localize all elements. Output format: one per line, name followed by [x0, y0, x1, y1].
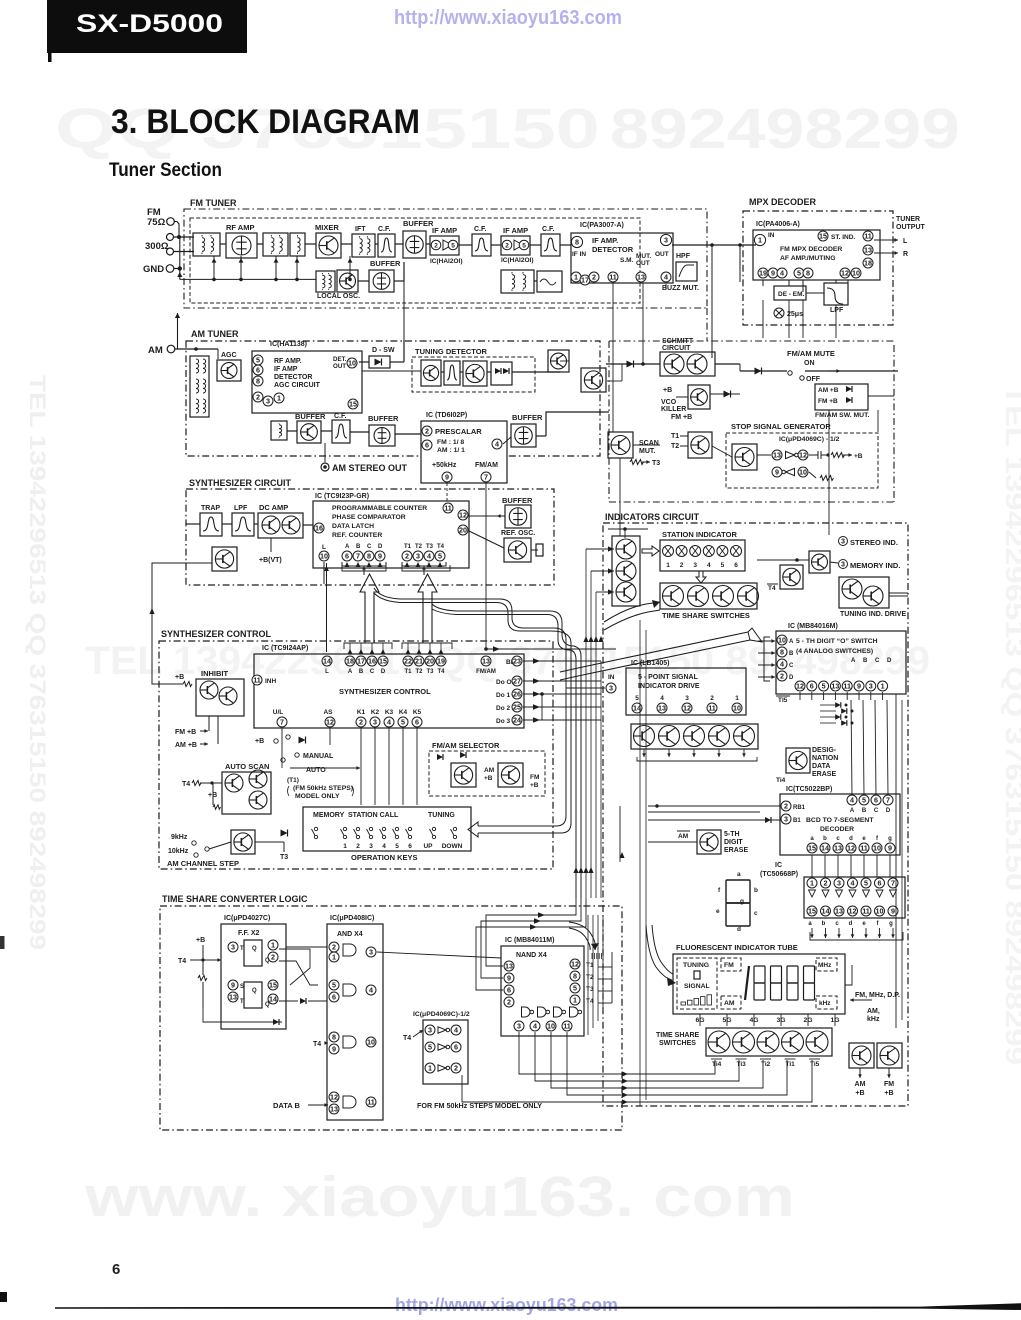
svg-text:MUT.: MUT. — [636, 253, 651, 260]
svg-text:VCO: VCO — [661, 399, 677, 406]
svg-text:C: C — [370, 669, 375, 675]
svg-text:3: 3 — [517, 1022, 521, 1031]
svg-text:Ti3: Ti3 — [737, 1061, 747, 1068]
svg-text:TUNING IND. DRIVE: TUNING IND. DRIVE — [840, 611, 906, 618]
svg-text:3: 3 — [428, 1026, 432, 1035]
svg-text:AM : 1/ 1: AM : 1/ 1 — [437, 447, 465, 454]
svg-text:A: A — [789, 639, 794, 645]
svg-text:T4: T4 — [768, 585, 776, 592]
svg-text:25: 25 — [513, 703, 521, 712]
svg-text:T3: T3 — [426, 669, 434, 675]
svg-text:MPX DECODER: MPX DECODER — [749, 197, 817, 207]
svg-text:19: 19 — [759, 269, 767, 278]
svg-text:3: 3 — [869, 682, 873, 691]
svg-text:AS: AS — [323, 709, 333, 716]
svg-text:7: 7 — [886, 796, 890, 805]
svg-text:75Ω: 75Ω — [147, 217, 166, 228]
svg-text:BUZZ MUT.: BUZZ MUT. — [662, 285, 699, 292]
svg-text:T2: T2 — [415, 669, 423, 675]
svg-text:15: 15 — [808, 844, 816, 853]
svg-text:OUTPUT: OUTPUT — [896, 224, 926, 231]
svg-text:5: 5 — [332, 981, 336, 990]
svg-text:9: 9 — [888, 844, 892, 853]
svg-text:D: D — [886, 808, 891, 814]
svg-text:11: 11 — [253, 676, 261, 685]
svg-text:B: B — [862, 808, 867, 814]
svg-text:1: 1 — [428, 1064, 432, 1073]
svg-text:AF AMP./MUTING: AF AMP./MUTING — [780, 255, 836, 262]
svg-text:IC(HAI2OI): IC(HAI2OI) — [501, 257, 534, 264]
svg-text:DATA LATCH: DATA LATCH — [332, 523, 374, 530]
svg-text:10: 10 — [320, 552, 328, 561]
svg-text:c: c — [754, 910, 758, 917]
svg-text:T2: T2 — [415, 544, 423, 550]
svg-text:FM TUNER: FM TUNER — [190, 198, 237, 208]
svg-text:IC (MB84011M): IC (MB84011M) — [505, 937, 554, 944]
svg-text:13: 13 — [864, 246, 872, 255]
svg-text:5: 5 — [428, 1043, 432, 1052]
svg-text:18: 18 — [864, 259, 872, 268]
svg-text:14: 14 — [269, 995, 277, 1004]
svg-text:6: 6 — [408, 843, 412, 850]
svg-text:D: D — [378, 544, 383, 550]
svg-text:IN: IN — [608, 674, 615, 681]
svg-text:http://www.xiaoyu163.com: http://www.xiaoyu163.com — [394, 6, 622, 29]
svg-text:2: 2 — [271, 953, 275, 962]
svg-text:FLUORESCENT INDICATOR TUBE: FLUORESCENT INDICATOR TUBE — [676, 943, 798, 952]
svg-text:1: 1 — [573, 996, 577, 1005]
svg-text:LOCAL OSC.: LOCAL OSC. — [317, 293, 360, 300]
svg-text:+B: +B — [175, 674, 184, 681]
svg-text:10: 10 — [547, 1022, 555, 1031]
svg-text:T4: T4 — [178, 958, 186, 965]
svg-text:DIGIT: DIGIT — [724, 839, 743, 846]
svg-text:STEREO IND.: STEREO IND. — [850, 538, 898, 547]
svg-text:+50kHz: +50kHz — [432, 462, 457, 469]
svg-text:TRAP: TRAP — [201, 505, 220, 512]
svg-text:a: a — [737, 871, 741, 878]
svg-text:ERASE: ERASE — [724, 847, 748, 854]
svg-text:Ti5: Ti5 — [810, 1061, 820, 1068]
svg-text:Do 2: Do 2 — [496, 705, 510, 712]
svg-text:FM: FM — [530, 774, 539, 781]
svg-text:4: 4 — [664, 273, 668, 282]
svg-text:7: 7 — [356, 552, 360, 561]
svg-text:AGC: AGC — [221, 352, 237, 359]
svg-text:INDICATORS CIRCUIT: INDICATORS CIRCUIT — [605, 512, 700, 522]
svg-text:Ti2: Ti2 — [761, 1061, 771, 1068]
svg-text:24: 24 — [513, 716, 521, 725]
svg-text:http://www.xiaoyu163.com: http://www.xiaoyu163.com — [395, 1294, 618, 1315]
svg-text:22: 22 — [404, 657, 412, 666]
svg-text:5-TH: 5-TH — [724, 831, 740, 838]
svg-text:DATA: DATA — [812, 763, 830, 770]
svg-text:C.F.: C.F. — [542, 226, 555, 233]
svg-text:9: 9 — [775, 468, 779, 477]
svg-text:T4: T4 — [437, 669, 445, 675]
svg-text:9: 9 — [231, 981, 235, 990]
svg-text:TIME SHARE SWITCHES: TIME SHARE SWITCHES — [662, 611, 750, 620]
svg-text:6: 6 — [454, 1043, 458, 1052]
svg-text:IC (TD6I02P): IC (TD6I02P) — [426, 412, 467, 419]
svg-text:12: 12 — [683, 704, 691, 713]
svg-text:MEMORY IND.: MEMORY IND. — [850, 561, 900, 570]
svg-text:5: 5 — [864, 879, 868, 888]
svg-text:OPERATION KEYS: OPERATION KEYS — [351, 853, 418, 862]
svg-text:Ti4: Ti4 — [776, 777, 786, 784]
svg-text:11: 11 — [367, 1098, 375, 1107]
svg-text:9kHz: 9kHz — [171, 834, 188, 841]
svg-text:13: 13 — [834, 844, 842, 853]
svg-text:5: 5 — [256, 356, 260, 365]
svg-text:FM +B: FM +B — [175, 729, 196, 736]
svg-text:12: 12 — [796, 682, 804, 691]
svg-text:LPF: LPF — [234, 505, 248, 512]
svg-text:C: C — [367, 544, 372, 550]
svg-text:T: T — [240, 999, 244, 1005]
svg-text:HPF: HPF — [676, 253, 691, 260]
svg-text:DC AMP: DC AMP — [259, 503, 288, 512]
svg-text:STATION INDICATOR: STATION INDICATOR — [662, 530, 737, 539]
svg-text:6: 6 — [734, 562, 738, 569]
svg-text:12: 12 — [799, 451, 807, 460]
svg-text:9: 9 — [771, 269, 775, 278]
svg-text:3: 3 — [369, 843, 373, 850]
svg-text:(4 ANALOG SWITCHES): (4 ANALOG SWITCHES) — [796, 648, 873, 655]
svg-text:1: 1 — [343, 843, 347, 850]
svg-text:IC(TC5022BP): IC(TC5022BP) — [786, 786, 832, 793]
svg-text:IC(PA3007-A): IC(PA3007-A) — [580, 222, 624, 229]
svg-text:13: 13 — [658, 704, 666, 713]
svg-text:TEL 13942296513 QQ 376315150 8: TEL 13942296513 QQ 376315150 892498299 — [1000, 385, 1021, 1065]
svg-text:IC (MB84016M): IC (MB84016M) — [788, 623, 838, 630]
svg-text:AM TUNER: AM TUNER — [191, 329, 239, 339]
svg-text:3. BLOCK DIAGRAM: 3. BLOCK DIAGRAM — [111, 103, 420, 141]
svg-text:1: 1 — [881, 682, 885, 691]
svg-text:SYNTHESIZER CONTROL: SYNTHESIZER CONTROL — [339, 687, 431, 696]
svg-text:3: 3 — [784, 815, 788, 824]
svg-text:5: 5 — [822, 682, 826, 691]
svg-text:K2: K2 — [371, 709, 380, 716]
svg-text:AM: AM — [855, 1081, 866, 1088]
svg-text:1: 1 — [332, 953, 336, 962]
svg-text:FM/AM: FM/AM — [476, 669, 496, 675]
svg-text:12: 12 — [847, 844, 855, 853]
svg-text:B: B — [789, 651, 794, 657]
svg-text:FM : 1/ 8: FM : 1/ 8 — [437, 439, 464, 446]
svg-text:K3: K3 — [385, 709, 394, 716]
svg-text:20: 20 — [426, 657, 434, 666]
svg-text:13: 13 — [330, 1105, 338, 1114]
svg-text:LPF: LPF — [830, 307, 844, 314]
svg-text:TIME SHARE CONVERTER LOGIC: TIME SHARE CONVERTER LOGIC — [162, 894, 308, 904]
svg-text:PHASE COMPARATOR: PHASE COMPARATOR — [332, 514, 406, 521]
svg-text:IC: IC — [775, 862, 782, 869]
svg-text:13: 13 — [229, 993, 237, 1002]
svg-text:ON: ON — [804, 360, 815, 367]
svg-text:OUT: OUT — [333, 363, 346, 370]
svg-text:7: 7 — [484, 473, 488, 482]
svg-text:4: 4 — [850, 796, 854, 805]
svg-text:B1: B1 — [793, 818, 801, 824]
svg-text:10kHz: 10kHz — [168, 848, 189, 855]
svg-text:1: 1 — [277, 394, 281, 403]
svg-text:T4: T4 — [182, 781, 190, 788]
svg-text:9: 9 — [445, 473, 449, 482]
svg-text:23: 23 — [513, 657, 521, 666]
svg-text:Tuner Section: Tuner Section — [109, 160, 222, 181]
svg-text:IF IN: IF IN — [572, 251, 586, 258]
svg-text:AM +B: AM +B — [818, 387, 839, 394]
svg-text:g: g — [889, 921, 893, 927]
svg-text:C.F.: C.F. — [334, 413, 347, 420]
svg-text:AM STEREO OUT: AM STEREO OUT — [332, 463, 408, 473]
svg-text:2: 2 — [332, 943, 336, 952]
svg-text:6: 6 — [112, 1261, 120, 1278]
svg-text:2: 2 — [256, 393, 260, 402]
svg-text:+B: +B — [484, 775, 493, 782]
svg-text:17: 17 — [357, 657, 365, 666]
svg-text:1: 1 — [666, 562, 670, 569]
svg-text:T4: T4 — [403, 1035, 411, 1042]
svg-text:6: 6 — [874, 796, 878, 805]
svg-text:5: 5 — [573, 984, 577, 993]
svg-text:6: 6 — [425, 441, 429, 450]
svg-text:14: 14 — [323, 657, 331, 666]
svg-text:3: 3 — [416, 552, 420, 561]
svg-text:FM +B: FM +B — [671, 414, 692, 421]
svg-text:Q: Q — [265, 1002, 270, 1008]
svg-text:UP: UP — [423, 843, 433, 850]
svg-text:C.F.: C.F. — [378, 226, 391, 233]
svg-text:IFT: IFT — [355, 226, 366, 233]
svg-text:K1: K1 — [357, 709, 366, 716]
svg-text:MEMORY: MEMORY — [313, 812, 345, 819]
svg-text:4: 4 — [780, 660, 784, 669]
svg-text:4: 4 — [427, 552, 431, 561]
svg-text:FM: FM — [724, 962, 734, 969]
svg-text:DETECTOR: DETECTOR — [592, 245, 634, 254]
svg-text:6: 6 — [332, 993, 336, 1002]
svg-text:T4: T4 — [313, 1041, 321, 1048]
svg-text:TUNING DETECTOR: TUNING DETECTOR — [415, 347, 488, 356]
svg-text:2: 2 — [425, 427, 429, 436]
svg-text:2: 2 — [780, 672, 784, 681]
svg-text:1: 1 — [574, 273, 578, 282]
svg-text:STOP SIGNAL GENERATOR: STOP SIGNAL GENERATOR — [731, 422, 831, 431]
svg-text:IC(μPD408IC): IC(μPD408IC) — [330, 915, 374, 922]
svg-text:11: 11 — [609, 273, 617, 282]
svg-text:FM MPX DECODER: FM MPX DECODER — [780, 246, 842, 253]
svg-text:11: 11 — [444, 504, 452, 513]
svg-text:D - SW: D - SW — [372, 347, 395, 354]
svg-text:IC (TC9I24AP): IC (TC9I24AP) — [262, 645, 308, 652]
svg-text:D: D — [381, 669, 386, 675]
svg-text:4: 4 — [495, 440, 499, 449]
svg-text:IF AMP: IF AMP — [432, 226, 457, 235]
svg-text:8: 8 — [332, 1033, 336, 1042]
svg-text:13: 13 — [482, 657, 490, 666]
svg-text:IF AMP: IF AMP — [274, 366, 298, 373]
svg-text:DET.: DET. — [333, 356, 347, 363]
svg-text:BUFFER: BUFFER — [502, 496, 533, 505]
svg-text:21: 21 — [415, 657, 423, 666]
svg-text:13: 13 — [505, 962, 513, 971]
svg-text:C: C — [789, 663, 794, 669]
svg-text:T1: T1 — [404, 669, 412, 675]
svg-text:+B: +B — [855, 1090, 864, 1097]
svg-text:g: g — [888, 836, 892, 842]
svg-text:DE - EM.: DE - EM. — [778, 291, 805, 298]
svg-text:T: T — [240, 946, 244, 952]
svg-text:18: 18 — [346, 657, 354, 666]
svg-text:AM: AM — [724, 1000, 735, 1007]
svg-text:7: 7 — [280, 718, 284, 727]
svg-text:12: 12 — [326, 718, 334, 727]
svg-text:SIGNAL: SIGNAL — [684, 983, 710, 990]
svg-text:ST. IND.: ST. IND. — [831, 234, 855, 241]
svg-text:Q: Q — [252, 988, 257, 994]
svg-text:2: 2 — [824, 879, 828, 888]
svg-text:12: 12 — [571, 960, 579, 969]
svg-text:12: 12 — [459, 511, 467, 520]
svg-text:4: 4 — [369, 986, 373, 995]
svg-text:AM: AM — [148, 345, 163, 356]
svg-text:+B: +B — [663, 387, 672, 394]
svg-text:9: 9 — [378, 552, 382, 561]
svg-text:SYNTHESIZER CONTROL: SYNTHESIZER CONTROL — [161, 629, 272, 639]
svg-text:AND X4: AND X4 — [337, 931, 363, 938]
svg-text:8: 8 — [573, 972, 577, 981]
svg-text:Q: Q — [265, 958, 270, 964]
svg-text:SWITCHES: SWITCHES — [659, 1040, 696, 1047]
svg-text:5: 5 — [451, 242, 455, 249]
svg-text:12: 12 — [841, 269, 849, 278]
svg-text:11: 11 — [843, 682, 851, 691]
svg-text:BUFFER: BUFFER — [403, 219, 434, 228]
svg-text:FM/AM MUTE: FM/AM MUTE — [787, 349, 835, 358]
svg-text:+B: +B — [196, 937, 205, 944]
svg-text:4: 4 — [707, 562, 711, 569]
svg-text:TI5: TI5 — [778, 697, 788, 704]
svg-text:T1: T1 — [404, 544, 412, 550]
svg-text:2: 2 — [507, 998, 511, 1007]
svg-text:STATION CALL: STATION CALL — [348, 812, 399, 819]
svg-text:TUNER: TUNER — [896, 216, 920, 223]
svg-text:MODEL ONLY: MODEL ONLY — [295, 793, 340, 800]
svg-text:IF AMP.: IF AMP. — [592, 236, 618, 245]
svg-text:FM: FM — [884, 1081, 894, 1088]
svg-text:C: C — [875, 658, 880, 664]
svg-text:GND: GND — [143, 264, 164, 275]
svg-text:U/L: U/L — [273, 709, 284, 716]
svg-text:3: 3 — [609, 684, 613, 693]
svg-text:AM,: AM, — [867, 1008, 880, 1015]
svg-text:TUNING: TUNING — [428, 812, 455, 819]
svg-text:www. xiaoyu163. com: www. xiaoyu163. com — [84, 1165, 795, 1229]
svg-text:MANUAL: MANUAL — [303, 753, 334, 760]
svg-text:11: 11 — [708, 704, 716, 713]
svg-text:3: 3 — [693, 562, 697, 569]
svg-text:12: 12 — [330, 1093, 338, 1102]
svg-text:11: 11 — [563, 1022, 571, 1031]
svg-text:FM +B: FM +B — [818, 398, 838, 405]
svg-text:MIXER: MIXER — [315, 223, 339, 232]
svg-text:PRESCALAR: PRESCALAR — [435, 427, 482, 436]
svg-text:5: 5 — [635, 695, 639, 702]
svg-text:INH: INH — [265, 678, 277, 685]
svg-text:L: L — [903, 238, 908, 245]
svg-text:9: 9 — [507, 974, 511, 983]
svg-text:300Ω: 300Ω — [145, 241, 169, 252]
svg-text:D: D — [789, 675, 794, 681]
svg-text:4: 4 — [533, 1022, 537, 1031]
svg-text:2: 2 — [454, 1064, 458, 1073]
svg-text:8: 8 — [575, 238, 579, 247]
svg-text:INDICATOR DRIVE: INDICATOR DRIVE — [638, 683, 700, 690]
svg-text:11: 11 — [864, 232, 872, 241]
svg-text:11: 11 — [862, 907, 870, 916]
svg-text:DECODER: DECODER — [820, 826, 854, 833]
svg-text:9: 9 — [891, 907, 895, 916]
svg-text:15: 15 — [269, 981, 277, 990]
svg-text:SYNTHESIZER CIRCUIT: SYNTHESIZER CIRCUIT — [189, 478, 292, 488]
svg-text:AUTO SCAN: AUTO SCAN — [225, 762, 269, 771]
svg-text:2: 2 — [592, 273, 596, 282]
svg-text:RB1: RB1 — [793, 805, 806, 811]
svg-text:A: A — [851, 658, 856, 664]
svg-text:T2: T2 — [671, 443, 679, 450]
svg-text:d: d — [737, 926, 741, 933]
svg-text:8: 8 — [780, 648, 784, 657]
svg-text:IC(HA1138): IC(HA1138) — [270, 341, 307, 348]
svg-text:FM/AM SW. MUT.: FM/AM SW. MUT. — [815, 412, 869, 419]
svg-text:TEL 13942296513 QQ 376315150 8: TEL 13942296513 QQ 376315150 892498299 — [25, 375, 50, 950]
svg-text:Q: Q — [252, 946, 257, 952]
svg-text:892498299: 892498299 — [610, 97, 960, 161]
svg-text:4: 4 — [387, 718, 391, 727]
svg-text:26: 26 — [513, 690, 521, 699]
svg-text:b: b — [822, 921, 826, 927]
svg-text:C: C — [874, 808, 879, 814]
svg-text:b: b — [823, 836, 827, 842]
svg-text:S.M.: S.M. — [620, 257, 634, 264]
svg-text:IC(μPD4069C)-1/2: IC(μPD4069C)-1/2 — [413, 1011, 470, 1018]
svg-text:3: 3 — [231, 943, 235, 952]
svg-text:AM: AM — [484, 767, 494, 774]
svg-text:15: 15 — [349, 400, 357, 409]
svg-text:INHIBIT: INHIBIT — [201, 669, 229, 678]
svg-text:d: d — [849, 921, 853, 927]
svg-text:PROGRAMMABLE COUNTER: PROGRAMMABLE COUNTER — [332, 505, 427, 512]
svg-text:T3: T3 — [652, 460, 660, 467]
svg-text:3: 3 — [841, 537, 845, 546]
svg-text:5: 5 — [862, 796, 866, 805]
svg-text:6: 6 — [256, 366, 260, 375]
svg-text:5: 5 — [797, 269, 801, 278]
svg-text:5 - POINT SIGNAL: 5 - POINT SIGNAL — [638, 674, 699, 681]
svg-text:TUNING: TUNING — [683, 962, 709, 969]
svg-text:SX-D5000: SX-D5000 — [76, 10, 223, 38]
svg-text:F.F. X2: F.F. X2 — [238, 930, 260, 937]
svg-text:AGC CIRCUIT: AGC CIRCUIT — [274, 382, 321, 389]
svg-text:2: 2 — [356, 843, 360, 850]
svg-text:6: 6 — [507, 986, 511, 995]
svg-text:K5: K5 — [413, 709, 422, 716]
svg-text:12: 12 — [849, 907, 857, 916]
svg-text:6: 6 — [878, 879, 882, 888]
svg-text:IC(PA4006-A): IC(PA4006-A) — [756, 221, 800, 228]
